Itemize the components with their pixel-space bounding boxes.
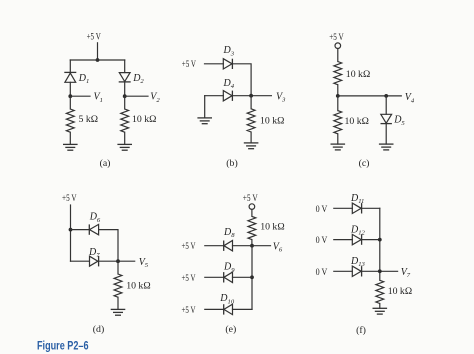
svg-text:D1: D1	[78, 73, 90, 85]
svg-text:(b): (b)	[226, 158, 237, 169]
resistor 10 kOhm (c top)	[334, 62, 342, 85]
wire D11 to bus corner	[362, 207, 380, 209]
wire top rail (a)	[70, 59, 124, 61]
ground (c right)	[379, 144, 394, 150]
ground (a left)	[63, 144, 78, 150]
wire lower branch to D7 (d)	[71, 260, 90, 262]
node left junction (c)	[336, 94, 340, 98]
wire node to resistor (b)	[250, 96, 252, 109]
wire resistor to ground (f)	[379, 304, 381, 309]
wire +5V to D3	[205, 63, 224, 65]
node top rail junction (a)	[96, 58, 100, 62]
node row2 junction (e)	[250, 275, 254, 279]
wire left branch to D1 (a)	[69, 60, 71, 72]
svg-text:+5 V: +5 V	[182, 305, 196, 316]
svg-text:+5 V: +5 V	[329, 32, 344, 43]
svg-text:0 V: 0 V	[316, 235, 328, 246]
resistor 10 kOhm (c bottom)	[334, 111, 342, 134]
node V3	[249, 94, 253, 98]
node V2	[123, 94, 127, 98]
diode D11	[352, 203, 361, 213]
svg-text:+5 V: +5 V	[62, 193, 77, 204]
wire left ground branch (b)	[204, 96, 206, 118]
svg-text:(f): (f)	[356, 325, 366, 336]
ground (b)	[244, 143, 259, 149]
wire to D4	[205, 95, 224, 97]
wire node V1 tap	[70, 95, 90, 97]
svg-text:10 kΩ: 10 kΩ	[126, 281, 150, 292]
ground (d)	[111, 309, 126, 315]
diode D12	[352, 234, 361, 244]
wire +5V to D10	[205, 308, 224, 310]
resistor 10 kOhm (a right)	[121, 109, 129, 132]
node upper branch junction (d)	[69, 228, 73, 232]
wire D9 to bus node	[233, 276, 253, 278]
resistor 5 kOhm (a)	[66, 109, 74, 132]
node V7	[378, 269, 382, 273]
diode D2	[119, 73, 131, 82]
wire resistor to ground (c left)	[337, 134, 339, 144]
node row2 (f)	[378, 238, 382, 242]
ground (c left)	[331, 144, 346, 150]
svg-text:V2: V2	[150, 92, 160, 104]
wire resistor to ground (b)	[250, 132, 252, 143]
svg-text:10 kΩ: 10 kΩ	[260, 115, 284, 126]
wire D10 to bus corner	[233, 308, 253, 310]
node V6	[250, 244, 254, 248]
wire D7 to node V5 and tap	[99, 260, 135, 262]
wire D8 to node	[233, 245, 253, 247]
diode D7	[90, 256, 99, 266]
resistor 10 kOhm (b)	[247, 109, 255, 132]
wire V2 node to resistor	[124, 96, 126, 109]
wire D3 to corner and down	[232, 64, 251, 96]
ground (b left)	[197, 118, 212, 124]
wire D1 to node V1	[69, 82, 71, 96]
wire bus down (f)	[379, 208, 381, 280]
diode D1	[64, 72, 76, 82]
diode D10	[224, 304, 233, 314]
terminal circle (e)	[249, 204, 255, 210]
svg-text:D11: D11	[350, 193, 364, 205]
wire D5 to ground	[385, 124, 387, 144]
wire supply down left side (d)	[70, 205, 72, 261]
wire node to resistor (d)	[117, 261, 119, 274]
wire D2 to node V2	[124, 82, 126, 96]
svg-text:+5 V: +5 V	[243, 193, 258, 204]
wire D4 to node V3 and tap	[232, 95, 271, 97]
wire terminal to resistor (c)	[337, 49, 339, 62]
diode D3	[223, 59, 232, 69]
svg-text:+5 V: +5 V	[182, 241, 196, 252]
wire terminal to resistor (e)	[251, 209, 253, 216]
svg-text:V1: V1	[94, 92, 103, 104]
svg-text:D5: D5	[393, 115, 405, 127]
svg-text:D13: D13	[350, 256, 366, 268]
wire +5V to D9	[205, 276, 224, 278]
wire resistor to node (c)	[337, 85, 339, 96]
diode D5	[381, 114, 392, 123]
diode D8	[224, 241, 233, 251]
wire V1 node to resistor	[69, 96, 71, 109]
wire node rail (c)	[338, 95, 402, 97]
node right junction (c)	[384, 94, 388, 98]
node V1	[68, 94, 72, 98]
wire node V6 tap	[252, 245, 271, 247]
svg-text:+5 V: +5 V	[182, 59, 196, 70]
svg-text:+5 V: +5 V	[87, 31, 101, 42]
svg-text:D2: D2	[132, 73, 144, 85]
wire node V2 tap	[125, 95, 148, 97]
svg-text:10 kΩ: 10 kΩ	[132, 114, 156, 125]
svg-text:5 kΩ: 5 kΩ	[79, 114, 99, 125]
svg-text:10 kΩ: 10 kΩ	[388, 286, 412, 297]
svg-text:(c): (c)	[359, 158, 370, 169]
svg-text:10 kΩ: 10 kΩ	[346, 69, 370, 80]
wire resistor to node V6	[251, 240, 253, 246]
svg-text:D6: D6	[89, 212, 101, 224]
svg-text:D4: D4	[223, 78, 235, 90]
wire D6 to right corner and down (d)	[99, 230, 118, 262]
ground (f)	[373, 308, 388, 314]
wire +5V to D8	[205, 245, 224, 247]
wire resistor to ground (a right)	[124, 132, 126, 144]
svg-text:0 V: 0 V	[316, 204, 328, 215]
svg-text:(a): (a)	[100, 158, 111, 169]
svg-text:10 kΩ: 10 kΩ	[345, 116, 369, 127]
svg-text:V4: V4	[405, 92, 415, 104]
svg-text:V7: V7	[401, 267, 411, 279]
wire right branch to D2 (a)	[124, 60, 126, 73]
resistor 10 kOhm (d)	[114, 274, 122, 297]
wire node to lower resistor (c)	[337, 96, 339, 111]
svg-text:D9: D9	[223, 262, 235, 274]
diode D13	[352, 266, 361, 276]
svg-text:V3: V3	[276, 91, 286, 103]
svg-text:V6: V6	[273, 241, 283, 253]
wire node to D5	[385, 96, 387, 114]
ground (a right)	[117, 144, 132, 150]
diode D9	[224, 272, 233, 282]
wire D13 to node V7 and tap	[362, 270, 398, 272]
svg-text:(e): (e)	[225, 324, 236, 335]
wire 0V to D11	[334, 207, 353, 209]
wire supply stub (a)	[97, 43, 99, 60]
svg-text:D3: D3	[223, 45, 235, 57]
wire 0V to D13	[334, 270, 353, 272]
wire 0V to D12	[334, 239, 353, 241]
diode D4	[223, 91, 232, 101]
terminal circle (c)	[335, 43, 341, 49]
diode D6	[89, 224, 98, 234]
svg-text:Figure P2–6: Figure P2–6	[37, 341, 89, 353]
svg-text:10 kΩ: 10 kΩ	[260, 222, 284, 233]
svg-text:D10: D10	[219, 293, 235, 305]
svg-text:0 V: 0 V	[316, 267, 328, 278]
svg-text:D7: D7	[88, 247, 100, 259]
resistor 10 kOhm (e)	[248, 216, 256, 239]
wire bus down (e)	[251, 246, 253, 310]
wire to D6	[71, 229, 90, 231]
wire resistor to ground (d)	[117, 297, 119, 309]
svg-text:D8: D8	[223, 227, 235, 239]
svg-text:(d): (d)	[93, 324, 104, 335]
resistor 10 kOhm (f)	[376, 280, 384, 303]
svg-text:+5 V: +5 V	[182, 273, 196, 284]
svg-text:V5: V5	[139, 257, 149, 269]
svg-text:D12: D12	[350, 224, 366, 236]
node V5	[116, 259, 120, 263]
wire resistor to ground (a left)	[69, 132, 71, 144]
wire D12 to bus node	[362, 239, 380, 241]
